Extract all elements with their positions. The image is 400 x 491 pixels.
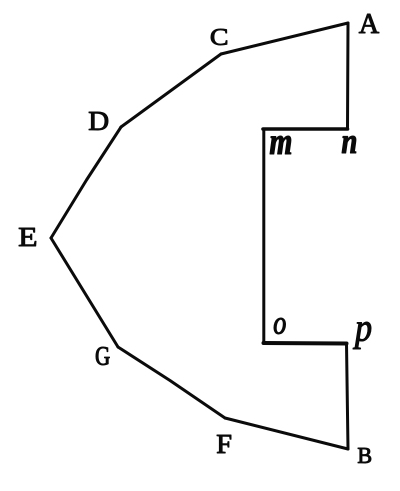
wire side A-n	[346, 23, 350, 129]
wire side E-G	[51, 238, 118, 347]
wire side C-D	[121, 54, 221, 127]
node F	[217, 435, 231, 453]
wire side G-F	[118, 347, 225, 418]
wire side F-B	[225, 418, 348, 449]
wire side A-C	[221, 23, 348, 54]
node o	[274, 318, 286, 334]
wire side m-o	[262, 129, 265, 343]
node D	[89, 112, 108, 130]
node n	[342, 136, 356, 153]
wire side p-B	[347, 344, 349, 450]
node B	[358, 448, 371, 463]
node A	[359, 14, 379, 33]
node m	[270, 136, 291, 154]
node E	[19, 228, 36, 246]
node p	[353, 322, 371, 349]
wire side D-E	[51, 127, 121, 238]
wire side n-m	[263, 127, 348, 131]
node G	[96, 347, 110, 365]
wire side o-p	[264, 341, 347, 346]
node C	[211, 29, 227, 45]
